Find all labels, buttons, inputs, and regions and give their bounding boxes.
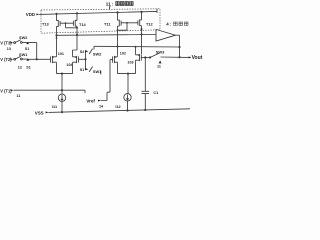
label S1 right (80, 68, 85, 72)
SW3 terminal arrow up (159, 60, 162, 63)
svg-text:VDD: VDD (26, 12, 35, 17)
label SW3 (156, 50, 165, 55)
wire V(T1) (14, 90, 86, 93)
label 103 (127, 60, 133, 64)
node dot gate 104 node (84, 58, 86, 60)
svg-text:SW2: SW2 (19, 35, 28, 40)
node dot Vout join (178, 56, 180, 58)
svg-text:I11: I11 (52, 105, 57, 109)
node dot gate tie T13 T14 (65, 22, 67, 24)
wire 103 gate right (141, 57, 150, 59)
wire gate tie T13-T14 (60, 23, 77, 28)
svg-text:V (T1): V (T1) (0, 88, 12, 93)
amplifier U4 triangle (156, 29, 176, 41)
input V(T3) label (0, 40, 12, 45)
svg-text:T11: T11 (104, 21, 111, 26)
transistor 104 (NMOS input right, mirrored) (73, 56, 79, 63)
label terminal 13 (7, 47, 11, 51)
VSS arrow (46, 111, 49, 113)
label I11 (52, 105, 57, 109)
label Vout (192, 55, 203, 61)
svg-text:S1: S1 (26, 65, 31, 69)
switch SW2 input left (13, 40, 27, 44)
input V(T3) arrow (10, 42, 13, 44)
label C1 (153, 91, 158, 95)
wire T14 drain down (76, 28, 78, 50)
label terminal 11 (16, 94, 20, 98)
wire T12 drain down (141, 29, 143, 54)
label 4 : amplifier (166, 22, 172, 27)
node dot I12 VSS (126, 109, 128, 111)
svg-text:12: 12 (18, 65, 22, 69)
load circuit dashed box 11 (41, 9, 160, 33)
svg-text:I12: I12 (115, 105, 120, 109)
wire 104 gate to switch node (78, 58, 85, 60)
svg-text:13: 13 (7, 47, 11, 51)
amplifier input bus wire (57, 34, 157, 37)
label 11 under SW3 (157, 65, 161, 69)
node dot C1 VSS (144, 109, 146, 111)
label I12 (115, 105, 120, 109)
node dot T13 drain at 38 (56, 37, 58, 39)
node dot T13 source tap (55, 13, 57, 15)
transistor T13 (PMOS) (57, 14, 61, 28)
wire VDD rail end stub (156, 9, 158, 13)
svg-text:T14: T14 (79, 22, 87, 27)
current source I11 (58, 94, 65, 101)
node triangle S1 row2 (26, 59, 29, 61)
label terminal 12 (18, 65, 22, 69)
Vref arrow (98, 100, 101, 102)
input V(T1) label (0, 88, 12, 93)
wire row1 node right and down (28, 43, 37, 60)
transistor 101 (NMOS input left) (51, 56, 57, 63)
node dot T11 drain diode tie (117, 29, 119, 31)
node dot T12 drain (141, 28, 143, 30)
Vout arrow (189, 56, 192, 58)
switch S1/SW1 right (85, 67, 93, 72)
svg-text:Vout: Vout (192, 55, 203, 61)
node dot T14 drain diode tie (76, 27, 78, 29)
node dot T14 drain on bus (76, 34, 78, 36)
wire tail B down (127, 74, 129, 94)
label terminal 14 (99, 104, 104, 108)
label SW1 right (93, 69, 102, 74)
switch SW1 input left (13, 56, 28, 60)
label T14 (79, 22, 87, 27)
label SW1 left (19, 52, 28, 57)
node dot feedback at 102 line (117, 46, 119, 48)
svg-text:T13: T13 (42, 21, 50, 26)
svg-text:11: 11 (157, 65, 161, 69)
label S2 right (80, 50, 85, 54)
node dot tail B (127, 73, 129, 75)
node dot feedback tap (178, 46, 180, 48)
switch S2/SW2 right (85, 49, 93, 54)
svg-text:101: 101 (58, 52, 64, 56)
svg-text:SW2: SW2 (93, 52, 102, 57)
label 104 (66, 63, 73, 67)
input V(T1) arrow (11, 89, 14, 91)
wire feedback hook down to SW2 (93, 46, 95, 49)
wire T11 drain down to node 102 (117, 29, 119, 56)
label 11 : load circuit (106, 2, 114, 7)
capacitor C1 (142, 58, 150, 111)
node dot C1 tap (144, 56, 146, 58)
label T11 (104, 21, 111, 26)
wire tail A down (61, 74, 63, 95)
node dot T12 source tap (140, 11, 142, 13)
svg-text:SW3: SW3 (156, 50, 165, 55)
svg-text:Vref: Vref (86, 99, 95, 104)
label S1 row2 (26, 65, 31, 69)
svg-text:103: 103 (127, 60, 133, 64)
wire row2 node to T01 gate (28, 58, 51, 60)
label 101 (58, 52, 64, 56)
svg-text:SW1: SW1 (19, 52, 28, 57)
transistor T14 (PMOS) (73, 13, 77, 28)
VDD terminal label (26, 12, 35, 17)
node dot SW3 left (149, 56, 151, 58)
label SW2 left (19, 35, 28, 40)
svg-text:4 :: 4 : (166, 22, 172, 27)
label SW2 right (93, 52, 102, 57)
svg-text:C1: C1 (153, 91, 158, 95)
wire gate tie T11-T12 (118, 23, 138, 30)
svg-text:S2: S2 (80, 50, 85, 54)
transistor T12 (PMOS) (138, 12, 142, 29)
svg-text:S1: S1 (80, 68, 85, 72)
node triangle S1 row1 (26, 42, 29, 44)
transistor T11 (PMOS) (118, 12, 122, 28)
Vref label (86, 99, 95, 104)
wire 102 gate left-down to Vref (101, 60, 113, 101)
wire SW1 right stub (100, 71, 102, 75)
switch SW3 (150, 53, 159, 57)
wire 104 drain jog (73, 50, 78, 56)
node dot tail A (61, 73, 63, 75)
wire diff pair B source U (118, 61, 136, 74)
node dot gate tie T11 T12 (126, 22, 128, 24)
wire diff pair A source U (57, 63, 73, 74)
VSS rail wire (49, 109, 191, 113)
label S1 row1 (25, 47, 30, 51)
feedback wire (94, 45, 180, 48)
label T13 (42, 21, 50, 26)
wire amp output right (176, 34, 180, 36)
svg-text:S1: S1 (25, 47, 30, 51)
wire Vout line (161, 56, 189, 58)
current source I12 (124, 94, 131, 101)
transistor 102 (NMOS, Vref gate) (113, 56, 118, 63)
node dot T14 source tap (76, 12, 78, 14)
CJK blob 负载电路 (116, 2, 133, 6)
wire T13 drain down to node 101 (56, 28, 58, 56)
VDD rail wire (39, 11, 157, 14)
VDD terminal arrow (36, 13, 39, 15)
wire I12 to VSS (127, 101, 129, 111)
node dot 101 on bus (55, 34, 57, 36)
node dot I11 VSS (61, 111, 63, 113)
svg-text:102: 102 (120, 52, 126, 56)
CJK blob amplifier (174, 22, 188, 25)
wire amp output down (179, 35, 181, 57)
wire switch common vertical (85, 51, 87, 69)
node dot T12 drain on bus (141, 33, 143, 35)
node dot V(T1) tail A cross (61, 89, 63, 91)
svg-text:T12: T12 (146, 21, 154, 26)
node dot T11 source tap (116, 11, 118, 13)
leader line for label 11 (108, 6, 111, 10)
label 102 (120, 52, 126, 56)
input V(T2) arrow (10, 58, 13, 60)
node dot rows join (36, 58, 38, 60)
wire 103 drain up to feedback (135, 47, 137, 54)
node dot feedback at T12 line (135, 46, 137, 48)
transistor 103 (NMOS output, mirrored) (136, 54, 142, 61)
svg-text:11: 11 (16, 94, 20, 98)
label T12 (146, 21, 154, 26)
input V(T2) label (0, 57, 12, 62)
VSS label (35, 111, 44, 116)
svg-text:VSS: VSS (35, 111, 44, 116)
wire I11 to VSS (61, 102, 63, 113)
